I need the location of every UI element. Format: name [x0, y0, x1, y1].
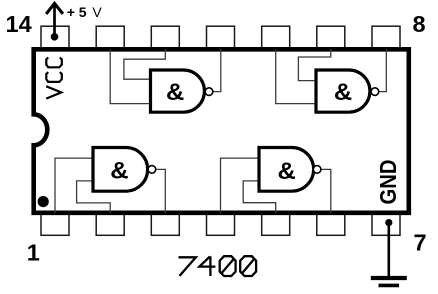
svg-text:&: & — [278, 158, 296, 185]
gate 2 output bubble — [371, 88, 379, 96]
pin 6 pad — [317, 214, 345, 236]
pin 7 pad — [372, 214, 400, 236]
NAND gate 2 body (pins 9,10 -> 8) — [316, 70, 370, 112]
NAND gate 1 body (pins 12,13 -> 11) — [151, 70, 205, 112]
VCC label (rotated, CAD stroke font) — [46, 58, 62, 99]
wire pin9 to gate2 input A — [298, 49, 330, 81]
wire gate2 output to pin8 — [379, 49, 387, 92]
wire gate3 output to pin3 — [156, 169, 166, 213]
gate 1 output bubble — [205, 88, 213, 96]
wire pin2 to gate3 input B — [77, 181, 111, 213]
NAND gate 4 body (pins 4,5 -> 6) — [259, 148, 314, 192]
ground wire — [387, 223, 390, 278]
pin 10 pad — [262, 26, 290, 48]
svg-text:&: & — [110, 158, 128, 185]
wire pin5 to gate4 input B — [243, 181, 276, 213]
wire pin4 to gate4 input A — [221, 158, 258, 213]
svg-text:1: 1 — [27, 240, 40, 266]
gate 3 output bubble — [148, 166, 156, 174]
digit 0 (second, slashed) — [240, 256, 256, 276]
svg-text:8: 8 — [413, 11, 426, 37]
svg-text:14: 14 — [6, 11, 32, 37]
pin 5 pad — [262, 214, 290, 236]
pin 14 pad — [41, 26, 69, 48]
IC body U1 (7400) with index notch — [34, 49, 409, 213]
digit 4 — [199, 256, 215, 276]
NAND gate 3 body (pins 1,2 -> 3) — [93, 148, 148, 192]
pin 9 pad — [317, 26, 345, 48]
+5V supply arrow on pin 14 — [46, 3, 63, 36]
pin 8 pad — [372, 26, 400, 48]
pin 1 pad — [41, 214, 69, 236]
pin 4 pad — [207, 214, 235, 236]
wire pin13 to gate1 input B — [110, 49, 149, 104]
ground symbol — [371, 278, 407, 285]
svg-text:+5V: +5V — [67, 4, 103, 20]
wire pin10 to gate2 input B — [276, 49, 315, 104]
pin 2 pad — [96, 214, 124, 236]
7400 part number (CAD stroke font with slashed zeros) — [179, 256, 257, 276]
svg-text:&: & — [334, 79, 352, 106]
pin 12 pad — [151, 26, 179, 48]
wire pin1 to gate3 input A — [55, 158, 92, 213]
svg-text:7: 7 — [414, 229, 427, 255]
pin 3 pad — [151, 214, 179, 236]
pin 11 pad — [207, 26, 235, 48]
pin 1 index dot — [38, 196, 49, 207]
svg-text:GND: GND — [375, 160, 401, 205]
ground wire dot on pin 7 — [385, 219, 392, 226]
svg-text:&: & — [166, 79, 184, 106]
wire gate4 output to pin6 — [321, 169, 331, 213]
wire gate1 output to pin11 — [213, 49, 221, 92]
gate 4 output bubble — [313, 166, 321, 174]
digit 0 (first, slashed) — [220, 256, 236, 276]
digit 7 — [179, 257, 196, 276]
pin 14 junction dot — [51, 33, 59, 41]
pin 13 pad — [96, 26, 124, 48]
wire pin12 to gate1 input A — [124, 49, 165, 79]
